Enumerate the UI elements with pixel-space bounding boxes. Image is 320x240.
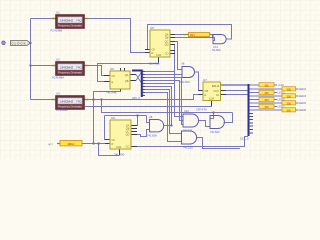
wire: net tap into gate GC input1 xyxy=(210,113,214,119)
wire: R1 to gate G1 input1 xyxy=(212,35,213,37)
wire: clock trunk vertical xyxy=(30,19,32,100)
IC U9 counter xyxy=(105,116,137,157)
wire: resistor row4 label lead xyxy=(296,95,299,97)
svg-text:CK: CK xyxy=(112,138,116,142)
wire: R2 net branch to U9 bottom pin xyxy=(99,144,120,156)
wire: resistor row3 label lead xyxy=(274,92,277,94)
junction port/trunk xyxy=(30,42,32,44)
junction G3 output xyxy=(171,125,173,127)
svg-text:AT0_0: AT0_0 xyxy=(132,96,140,100)
resistor network column 2 xyxy=(282,87,296,113)
wire: bus2 to resistor row8 far xyxy=(248,109,282,111)
svg-text:CLR: CLR xyxy=(156,53,161,57)
svg-text:U5: U5 xyxy=(150,26,154,30)
svg-text:CK: CK xyxy=(112,74,116,78)
gate GB AND 3-input xyxy=(183,109,199,132)
frequency generator U2 xyxy=(52,58,89,80)
wire: net from U3 junction to U7 pin2 xyxy=(89,95,204,100)
wire: U5 pin QA to R1 xyxy=(175,34,183,36)
svg-text:U2: U2 xyxy=(56,58,60,62)
wire: resistor row6 label lead xyxy=(296,102,299,104)
svg-text:CO: CO xyxy=(126,145,130,149)
svg-text:74LS00: 74LS00 xyxy=(180,80,190,84)
frequency generator U3 xyxy=(52,92,89,113)
junction U3 lead xyxy=(93,99,95,101)
resistor R2 xyxy=(48,141,82,147)
wire: bus tap y92 down to gate GD input2 xyxy=(145,93,182,142)
wire: bus2 to resistor row7 xyxy=(248,106,259,108)
wire: gate GC output loop up to net xyxy=(224,113,233,123)
svg-text:FRQ: FRQ xyxy=(77,20,82,23)
wire: bus tap y77 down to gate GB input3 xyxy=(145,78,183,125)
port CLOCK xyxy=(11,41,31,46)
wire: U9 carry pin to bus2 bottom xyxy=(137,137,248,147)
wire: feedback loop gate G1 output to U5 left pin xyxy=(148,25,232,50)
svg-text:74LS08: 74LS08 xyxy=(147,134,157,138)
svg-text:U1: U1 xyxy=(56,11,60,15)
wire: U3 output down to U9 clock pin xyxy=(93,100,95,144)
gate G3 AND xyxy=(147,115,164,138)
node: input terminal circle xyxy=(2,41,6,45)
svg-text:U6: U6 xyxy=(110,67,114,71)
svg-text:R21: R21 xyxy=(190,33,195,37)
wire: bus2 to resistor row5 xyxy=(248,99,259,101)
junction U3 net on R2 wire xyxy=(93,143,95,145)
junction net/GC input tap xyxy=(213,112,215,114)
resistor RN8 xyxy=(282,108,296,112)
wire: gate G2 input2 tap from bus xyxy=(145,74,182,76)
wire: U9 pin QD jog to gate G3 input2 xyxy=(137,130,150,137)
svg-text:QB: QB xyxy=(165,36,169,40)
IC U5 counter xyxy=(145,26,175,66)
wire: U2 output to U6 pin1 xyxy=(89,66,105,76)
svg-text:CRY4T0: CRY4T0 xyxy=(196,108,207,112)
svg-text:74LS20: 74LS20 xyxy=(183,145,193,149)
wire: U1 output to U5 clock xyxy=(89,19,146,53)
svg-text:74LS90: 74LS90 xyxy=(114,153,125,157)
junction dots xyxy=(30,42,215,145)
wire: resistor row7 label lead xyxy=(274,106,277,108)
svg-text:E: E xyxy=(205,93,207,97)
wire: bus tap y89 down to gate GD input1 xyxy=(145,90,182,134)
svg-text:QA: QA xyxy=(125,73,129,77)
wire: trunk to U2 input xyxy=(31,65,52,67)
svg-text:CLR: CLR xyxy=(116,145,121,149)
svg-text:FC4148M: FC4148M xyxy=(52,75,65,79)
svg-text:R: R xyxy=(112,142,114,146)
junction U3 net drop xyxy=(101,99,103,101)
svg-text:R: R xyxy=(152,51,154,55)
wire: gate G2 output down to U7 pin1 xyxy=(195,72,204,91)
svg-text:300: 300 xyxy=(287,88,292,92)
svg-text:4R7: 4R7 xyxy=(48,142,54,146)
svg-text:300: 300 xyxy=(287,102,292,106)
gate GC NAND xyxy=(210,116,224,134)
resistor RN1 xyxy=(259,83,274,87)
resistor RN6 xyxy=(282,101,296,105)
wire: resistor row2 label lead xyxy=(296,88,299,90)
svg-text:300: 300 xyxy=(287,95,292,99)
svg-text:E: E xyxy=(112,80,114,84)
svg-text:QD: QD xyxy=(126,133,130,137)
wire: bus2 to resistor row6 far xyxy=(248,102,282,104)
wire: bus tap y71 to bundle xyxy=(145,71,174,73)
wire: QA wrap net horizontal xyxy=(105,115,147,117)
frequency generator U1 xyxy=(51,11,89,33)
svg-text:CB: CB xyxy=(205,89,209,93)
junction trunk/U2 xyxy=(30,65,32,67)
wire: U3 junction up to U6 bottom pin xyxy=(94,92,121,100)
svg-text:CLR: CLR xyxy=(209,97,214,101)
wire: U5 bottom pin to U6 pin2 xyxy=(98,57,159,82)
svg-text:1.8432MHZ: 1.8432MHZ xyxy=(60,100,74,104)
wire: trunk to U1 input xyxy=(31,18,52,20)
svg-text:FRQ: FRQ xyxy=(77,67,82,70)
svg-text:LED6: LED6 xyxy=(299,101,306,105)
svg-text:LED8: LED8 xyxy=(299,108,306,112)
wire: QA wrap down to U9 clock pin xyxy=(105,116,111,140)
svg-text:Frequency Generator: Frequency Generator xyxy=(58,25,82,28)
svg-text:1.8432MHZ: 1.8432MHZ xyxy=(60,66,74,70)
svg-text:74LS00: 74LS00 xyxy=(212,48,222,52)
wire: U7 right pin3 to bus2 xyxy=(226,94,248,96)
svg-text:4MHz: 4MHz xyxy=(67,142,75,146)
svg-text:U10: U10 xyxy=(184,109,189,113)
wire: QA net to gate G3 input1 xyxy=(147,116,150,123)
svg-text:300: 300 xyxy=(264,98,269,102)
svg-text:LED7: LED7 xyxy=(278,105,285,109)
svg-text:QD: QD xyxy=(165,43,169,47)
junction QA wrap net xyxy=(137,115,139,117)
wire: bus2 to resistor row1 xyxy=(248,84,259,86)
wire: junction drop to long net above gates xyxy=(102,100,233,113)
svg-text:SCL_0: SCL_0 xyxy=(240,137,249,141)
svg-text:621-8: 621-8 xyxy=(212,84,220,88)
svg-text:U7: U7 xyxy=(203,78,207,82)
svg-text:U3: U3 xyxy=(56,92,60,96)
svg-text:Frequency Generator: Frequency Generator xyxy=(58,106,82,109)
wire: resistor row5 label lead xyxy=(274,99,277,101)
wire: U6 pin QB cross to bus tap y71 xyxy=(136,72,142,81)
wire: U7 right pin1 heavy to resistor row1 xyxy=(221,84,260,86)
wire: U5 pin QD down the bundle to gate GB input1 xyxy=(175,45,184,117)
svg-text:FC4148M: FC4148M xyxy=(56,108,69,112)
svg-text:+12V: +12V xyxy=(278,83,285,87)
resistor RN7 xyxy=(259,104,274,108)
svg-text:LED4: LED4 xyxy=(299,94,306,98)
wire: U6 pin QA cross to bus tap y83 xyxy=(136,75,142,84)
svg-text:300: 300 xyxy=(264,105,269,109)
wire: U5 pin QB to gate G1 input2 xyxy=(175,38,215,41)
svg-text:74LS11: 74LS11 xyxy=(183,128,193,132)
wire: bus tap y86 down to gate G3 output junction xyxy=(145,87,172,126)
svg-text:LED5: LED5 xyxy=(278,98,285,102)
svg-text:U9: U9 xyxy=(111,116,115,120)
wire: trunk to U3 input xyxy=(31,99,52,101)
svg-text:74LS48: 74LS48 xyxy=(106,90,117,94)
wire: U9 pin QA jog to gate G3 input1 xyxy=(136,116,139,126)
wire: gate GB output to gate GC input2 xyxy=(199,121,211,127)
svg-text:FC4148M: FC4148M xyxy=(51,28,64,32)
svg-text:LED3: LED3 xyxy=(278,91,285,95)
wire: bus2 to resistor row4 far xyxy=(248,95,282,97)
junction R2 net branch xyxy=(98,143,100,145)
wire: gate GD output down and right xyxy=(197,138,241,149)
gate G2 NAND U8A xyxy=(180,61,195,83)
wire: U3 long horizontal to U7 bottom pin xyxy=(85,106,212,108)
svg-text:FRQ: FRQ xyxy=(77,101,82,104)
IC U6 decoder xyxy=(104,67,136,94)
bus comb 2 xyxy=(240,84,253,141)
svg-text:U8: U8 xyxy=(149,115,153,119)
wire: resistor row1 label lead xyxy=(274,84,277,86)
svg-text:300: 300 xyxy=(264,91,269,95)
resistor RN5 xyxy=(259,97,274,101)
wire: U7 right pin2 to bus2 xyxy=(226,90,248,92)
wire: resistor row8 label lead xyxy=(296,109,299,111)
svg-text:1.8432MHZ: 1.8432MHZ xyxy=(60,19,74,23)
wire: R2 to U9 left pin xyxy=(82,143,105,145)
wire: bus2 to resistor row3 xyxy=(248,92,259,94)
wire: bus tap y83 to bundle vertical xyxy=(145,83,175,85)
wire: bus tap y80 down to gate GB input2 xyxy=(145,81,183,121)
svg-text:CKO: CKO xyxy=(213,89,219,93)
svg-text:CO: CO xyxy=(165,52,169,56)
wire: bus2 to resistor row2 far xyxy=(248,88,282,90)
resistor RN3 xyxy=(259,90,274,94)
svg-text:74LS00: 74LS00 xyxy=(210,130,220,134)
resistor R1 xyxy=(183,33,212,37)
svg-text:QB: QB xyxy=(125,79,129,83)
IC U7 flip-flop xyxy=(196,78,226,112)
svg-text:U8: U8 xyxy=(181,61,185,65)
resistor RN4 xyxy=(282,94,296,98)
gate GD AND xyxy=(182,131,197,149)
svg-text:Frequency Generator: Frequency Generator xyxy=(58,72,82,75)
net labels right xyxy=(278,83,307,112)
resistor network column 1 xyxy=(259,83,274,109)
svg-text:LED2: LED2 xyxy=(299,87,306,91)
bus comb 1 xyxy=(132,70,145,101)
gate G1 NAND U7A xyxy=(212,35,227,53)
wire: U5 pin QC down to gate G2 input1 xyxy=(175,42,182,70)
svg-text:300: 300 xyxy=(264,84,269,88)
svg-text:300: 300 xyxy=(287,109,292,113)
wire: gate G3 output to bundle junction xyxy=(164,125,172,127)
svg-text:CLK4B6: CLK4B6 xyxy=(149,62,160,66)
resistor RN2 xyxy=(282,87,296,91)
